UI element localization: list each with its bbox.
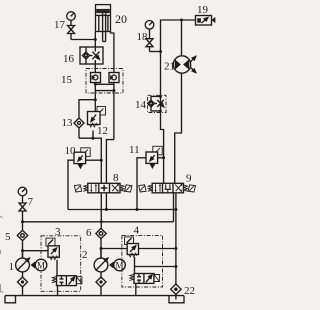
- svg-text:20: 20: [115, 12, 127, 26]
- pressure gauge 17: [67, 12, 76, 26]
- junction dot on tank rail: [174, 208, 177, 211]
- shutoff valve under gauge 7: [19, 203, 26, 230]
- wire gauge 18 to line C: [150, 51, 161, 53]
- junction dot P rail: [100, 220, 103, 223]
- junction dot: [94, 83, 97, 86]
- junction dot: [94, 98, 97, 101]
- shutoff valve under gauge 17: [68, 26, 75, 40]
- wire top header from node to pressure switch 19: [161, 20, 196, 52]
- wire valve 11 right to port A line: [158, 157, 164, 159]
- junction dot: [100, 159, 103, 162]
- junction dot: [159, 50, 162, 53]
- svg-text:3: 3: [55, 226, 61, 238]
- check valve 22: [171, 284, 181, 300]
- line C down into valve 14: [160, 52, 162, 100]
- directional valve 9: [139, 183, 196, 193]
- pilot cross wire upper: [95, 83, 114, 85]
- wire cylinder rod port down (line B): [111, 32, 114, 73]
- valve 8 T port to tank rail: [105, 193, 107, 210]
- counterbalance valve 14 (dashed box): [148, 95, 166, 112]
- svg-text:5: 5: [5, 231, 11, 243]
- wire valve 10 right to port A line: [86, 159, 101, 161]
- prefill valve 16: [80, 47, 103, 64]
- coupling pump 1: [31, 262, 36, 269]
- svg-text:M: M: [37, 261, 45, 271]
- suction filter pump 1: [18, 272, 28, 296]
- pilot check valve 15 left: [91, 64, 101, 100]
- pump 1: [16, 251, 30, 272]
- pilot relief valve 3a: [23, 238, 60, 276]
- wire line B jog to valve 8 port B: [106, 140, 114, 184]
- pressure rail: [23, 221, 174, 223]
- wire valve 11 left to tank rail: [137, 158, 146, 210]
- junction dot P rail left: [21, 220, 24, 223]
- pressure switch 19: [196, 16, 216, 26]
- check valve 5: [17, 230, 27, 258]
- pilot check valve 15 right: [109, 73, 119, 140]
- coupling pump 2: [109, 262, 114, 269]
- pilot cross wire lower: [95, 90, 114, 92]
- svg-text:16: 16: [63, 53, 75, 65]
- junction dot: [112, 89, 115, 92]
- unloading valve 3b (2/2 solenoid): [52, 276, 82, 296]
- remote pressure valve 10: [74, 148, 90, 169]
- svg-text:21: 21: [164, 61, 175, 73]
- pressure gauge 18: [145, 21, 154, 39]
- cylinder 20: [96, 5, 111, 42]
- valve 9 bottom port to pressure rail: [173, 193, 175, 222]
- wire into valve 12: [94, 100, 96, 112]
- junction dot valve 11 drop: [136, 208, 139, 211]
- svg-text:15: 15: [61, 74, 73, 86]
- svg-text:18: 18: [137, 31, 149, 43]
- unloading group 3 (dashed box): [41, 236, 81, 291]
- pump 2: [94, 249, 108, 272]
- svg-text:4: 4: [134, 225, 140, 237]
- pilot relief valve 4a: [125, 237, 139, 274]
- tank symbol left: [5, 296, 16, 303]
- svg-text:13: 13: [62, 117, 74, 129]
- motor M1: [35, 259, 47, 271]
- wire motor branch drop: [181, 20, 183, 56]
- svg-text:19: 19: [197, 4, 209, 16]
- junction dot top header: [180, 19, 183, 22]
- valve 8 P port to pressure rail: [100, 193, 102, 229]
- tank return line: [5, 295, 184, 297]
- svg-text:6: 6: [86, 227, 92, 239]
- check valve 13: [74, 118, 84, 138]
- junction dot: [92, 137, 95, 140]
- svg-text:14: 14: [135, 99, 147, 111]
- wire branch to check 13: [79, 100, 95, 118]
- svg-text:10: 10: [65, 145, 77, 157]
- junction dot pump 1 out: [21, 249, 24, 252]
- svg-text:8: 8: [113, 172, 119, 184]
- junction dot: [162, 156, 165, 159]
- directional valve 8: [74, 183, 132, 193]
- wire gauge 17 to cap line: [71, 39, 95, 41]
- junction dot pump 2 out: [100, 247, 103, 250]
- valve 9 drain to diamond 22 line: [175, 193, 177, 284]
- svg-text:11: 11: [129, 144, 140, 156]
- suction filter pump 2: [96, 272, 106, 296]
- tank symbol right: [169, 296, 184, 303]
- page-edge artifacts: [0, 216, 4, 292]
- wire 12/13 node to valve 8 port A: [79, 138, 101, 183]
- back-pressure valve 12: [88, 107, 106, 139]
- wire line C to valve 9 port A: [161, 113, 164, 184]
- check valve 6: [96, 228, 106, 258]
- pressure gauge 7: [18, 187, 27, 203]
- wire valve 10 left to tank rail: [68, 160, 74, 209]
- shutoff valve under gauge 18: [146, 39, 153, 52]
- junction dot unload line: [174, 265, 177, 268]
- svg-text:2: 2: [82, 249, 88, 261]
- remote pressure valve 11: [146, 146, 162, 169]
- junction dot on pump2 line: [174, 247, 177, 250]
- svg-text:9: 9: [186, 173, 192, 185]
- support valve block 15 (dashed): [86, 69, 123, 94]
- svg-text:12: 12: [97, 125, 108, 137]
- wire cylinder cap port down (line A): [94, 32, 96, 48]
- pump 2 delivery line right: [101, 248, 176, 250]
- svg-text:17: 17: [54, 19, 66, 31]
- junction dot T rail: [105, 208, 108, 211]
- unloading valve 4b (2/2 solenoid): [129, 274, 159, 296]
- svg-text:1: 1: [9, 261, 15, 273]
- tank rail: [68, 209, 176, 211]
- wire unload to check 22: [135, 266, 176, 268]
- svg-text:7: 7: [28, 196, 34, 208]
- unloading group 4 (dashed box): [122, 235, 163, 287]
- junction node cap line: [94, 38, 97, 41]
- svg-text:22: 22: [184, 285, 195, 297]
- hydraulic motor 21: [173, 56, 196, 75]
- wire motor line to valve 9 port B: [175, 74, 182, 183]
- motor M2: [114, 259, 126, 271]
